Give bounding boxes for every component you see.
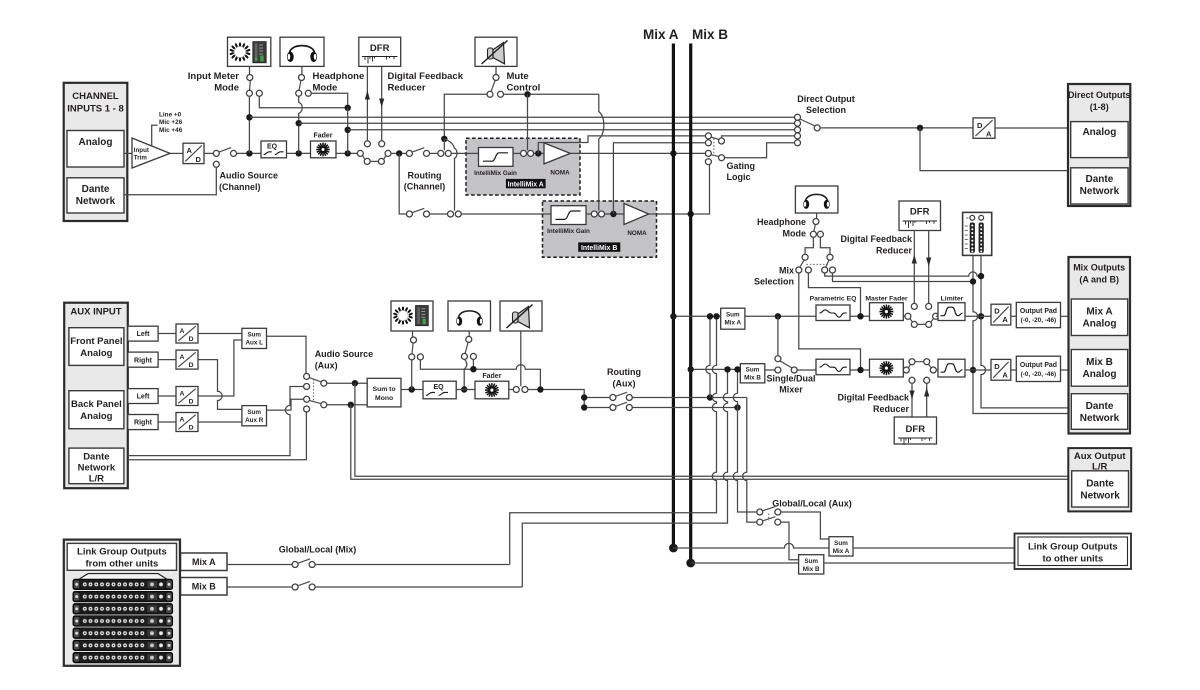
wire pair to NOMA B: [604, 213, 624, 215]
wire EQ to fader: [287, 152, 311, 154]
headphone mode icon mix: [795, 186, 838, 213]
wire gl-aux2 to link sum B: [781, 522, 799, 560]
node aux routing branch 1: [581, 394, 587, 400]
svg-text:Aux Output: Aux Output: [1074, 451, 1127, 462]
svg-text:Dante: Dante: [83, 452, 109, 463]
svg-text:IntelliMix Gain: IntelliMix Gain: [474, 170, 517, 177]
wire routing branch down to B path: [399, 153, 406, 214]
wire source L to sum to mono: [327, 382, 368, 384]
aux mute icon: [500, 301, 542, 331]
channel dante network box: [67, 178, 124, 213]
svg-text:(A and B): (A and B): [1079, 275, 1119, 285]
wire aux meter post branch: [420, 360, 540, 390]
output pad B box: [1016, 356, 1060, 381]
aux meter mode icon: [391, 301, 433, 331]
front panel analog box: [69, 328, 124, 366]
parametric EQ A box: [816, 305, 850, 321]
wire meter pre tap: [248, 96, 250, 153]
wire mute drop B (over box): [598, 200, 600, 211]
aux headphone selector: [461, 331, 476, 359]
wire mixsel2 to A post-EQ: [808, 273, 860, 316]
D/A converter mix B: [991, 359, 1011, 380]
global/local aux switch 2: [757, 517, 781, 525]
svg-text:A: A: [1002, 315, 1008, 324]
mute break switch in IntelliMix B: [591, 211, 604, 217]
mix A analog box: [1071, 299, 1127, 336]
svg-text:Line +0: Line +0: [159, 112, 182, 119]
routing aux switch 2: [610, 402, 632, 410]
label routing aux: [607, 367, 641, 389]
wire switch to EQ: [236, 152, 261, 154]
channel DFR insert switch: [357, 141, 391, 165]
node mute right split: [524, 91, 530, 97]
wire to mute pair B: [429, 213, 447, 215]
svg-text:Sum: Sum: [804, 558, 818, 565]
wire mixsel1 to B post-EQ: [799, 273, 861, 370]
svg-text:Digital Feedback: Digital Feedback: [388, 71, 464, 82]
wire mix B bus to sum mix B: [691, 368, 741, 370]
wire NOMA A output to mix A: [570, 152, 705, 154]
wire routing2 to global/local aux 1: [733, 369, 757, 512]
node aux post-fader tap: [537, 386, 543, 392]
svg-text:Analog: Analog: [1082, 127, 1116, 138]
front right box: [128, 352, 158, 367]
svg-text:A: A: [187, 146, 193, 155]
svg-text:Dante: Dante: [1086, 479, 1114, 490]
direct outputs outer box: [1068, 84, 1131, 206]
wire A/D3 to sum aux L: [198, 340, 242, 396]
node gate tap B: [610, 211, 616, 217]
svg-text:Direct Outputs: Direct Outputs: [1068, 90, 1131, 100]
aux meter selector: [409, 331, 424, 360]
rack units drawing: [80, 574, 167, 579]
wire D/A to output pad A: [1011, 315, 1017, 317]
wire aux R to dante out: [351, 405, 1069, 480]
svg-text:Front Panel: Front Panel: [70, 336, 122, 347]
label audio source aux: [315, 349, 374, 371]
link sum mix A box: [829, 537, 853, 556]
wire mix A bus to sum mix A: [673, 315, 720, 317]
wire mix A in: [227, 564, 292, 566]
IntelliMix gain A box: [479, 148, 514, 167]
svg-text:D: D: [189, 399, 194, 406]
gating gang link: [713, 139, 715, 155]
wire link sum B out: [824, 562, 1015, 564]
wire aux headphone post: [472, 359, 474, 369]
node aux routing branch 2: [581, 404, 587, 410]
svg-text:Mic +26: Mic +26: [159, 119, 183, 126]
gain bracket wire: [152, 125, 158, 145]
svg-text:Mix B: Mix B: [692, 27, 728, 42]
label headphone mode mix: [757, 217, 806, 239]
svg-text:Reducer: Reducer: [873, 404, 910, 414]
svg-text:Analog: Analog: [1083, 369, 1117, 380]
wire meter left to B output: [973, 255, 1071, 413]
wire aux dante L to switch with hop: [128, 387, 304, 456]
wire link-in A vertical: [510, 316, 717, 564]
svg-text:Link Group Outputs: Link Group Outputs: [77, 547, 167, 558]
IntelliMix A dashed block: [466, 138, 580, 195]
svg-text:Routing: Routing: [607, 367, 641, 377]
wire switch to PEQ B: [797, 369, 816, 371]
svg-text:Mix A: Mix A: [1086, 307, 1112, 318]
wire EQ to fader: [456, 389, 475, 391]
wire NOMA B output to mix B and gating: [649, 165, 710, 214]
wire mixsel4 to B output: [833, 273, 974, 282]
output pad A box: [1016, 302, 1060, 327]
wire pad B to mix outputs: [1061, 369, 1072, 371]
svg-text:Gating: Gating: [727, 161, 756, 171]
wire master fader to DFR insert: [903, 315, 905, 317]
wire limiter A to D/A A: [936, 315, 991, 317]
wire aux L to dante out: [355, 383, 1068, 476]
mix outputs outer box: [1069, 257, 1131, 434]
wire into IntelliMix B: [461, 213, 551, 215]
svg-text:Sum to: Sum to: [373, 386, 396, 393]
back right box: [128, 415, 158, 430]
svg-text:EQ: EQ: [267, 144, 278, 151]
node sumA line tap2: [713, 313, 719, 319]
svg-text:Input Meter: Input Meter: [188, 71, 239, 82]
svg-text:Mode: Mode: [313, 83, 338, 94]
svg-text:Network: Network: [1080, 413, 1120, 424]
svg-text:Left: Left: [137, 331, 151, 338]
IntelliMix B black label: [578, 242, 620, 251]
sum mix A box: [721, 308, 745, 329]
wire sum aux L to source switch: [267, 336, 307, 373]
wire DFR B send down: [911, 383, 913, 417]
wire mute drop A (over box): [527, 137, 529, 150]
label mute control: [507, 71, 541, 94]
svg-text:D: D: [189, 362, 194, 369]
svg-text:Global/Local (Mix): Global/Local (Mix): [279, 545, 357, 555]
svg-text:Mix A: Mix A: [725, 320, 742, 327]
mix dante network box: [1071, 394, 1127, 430]
bus line 1 pre tap: [249, 116, 794, 118]
wire source R to sum to mono: [327, 404, 368, 406]
audio source aux switches: [304, 373, 327, 412]
IntelliMix B dashed block: [543, 201, 657, 257]
svg-text:Analog: Analog: [80, 348, 112, 359]
node mix B channel junction: [688, 211, 694, 217]
NOMA B amplifier: [624, 204, 649, 237]
back left box: [128, 389, 158, 404]
node single/dual branch: [775, 313, 781, 319]
wire dante to source switch: [124, 167, 216, 195]
aux A/D 1: [176, 324, 198, 343]
svg-text:(Aux): (Aux): [315, 361, 338, 371]
svg-text:Mix B: Mix B: [192, 582, 217, 592]
rack unit 6: [73, 640, 173, 651]
link-in mix B box: [181, 578, 228, 596]
Mix B bus: [689, 44, 692, 564]
node aux post join: [470, 366, 476, 372]
IntelliMix A black label: [506, 179, 546, 188]
svg-text:IntelliMix B: IntelliMix B: [581, 245, 617, 252]
headphone mode selector: [296, 66, 312, 96]
wire routing2 to sum B vertical: [632, 407, 737, 409]
node mixsel1 tap B: [857, 367, 863, 373]
svg-text:Audio Source: Audio Source: [220, 171, 279, 181]
wire D/A to output pad B: [1011, 369, 1017, 371]
wire PEQ B to master fader B: [850, 369, 870, 371]
DFR mix B box: [894, 417, 936, 445]
svg-text:Input: Input: [134, 147, 149, 154]
svg-text:Network: Network: [1080, 491, 1120, 502]
svg-text:A: A: [180, 354, 185, 361]
wire into gain A (over box): [464, 152, 479, 154]
svg-text:(Channel): (Channel): [219, 182, 261, 192]
wire analog to input trim: [124, 152, 132, 154]
limiter A box: [938, 303, 965, 321]
svg-text:Master Fader: Master Fader: [865, 296, 908, 303]
svg-text:Selection: Selection: [754, 277, 794, 287]
wire D/A to analog out: [995, 127, 1071, 129]
wire mixsel3 to A output with hop: [825, 272, 981, 276]
label digital feedback reducer mix A: [840, 234, 913, 256]
svg-text:CHANNEL: CHANNEL: [72, 91, 119, 102]
svg-text:D: D: [189, 336, 194, 343]
wire gating2 out to selector: [724, 143, 794, 158]
svg-text:Mix B: Mix B: [744, 375, 761, 382]
node aux L tap: [352, 380, 358, 386]
direct dante box: [1071, 168, 1128, 204]
wire branch1 to switch: [587, 397, 610, 399]
svg-text:Trim: Trim: [134, 154, 148, 161]
master fader A box: [870, 303, 904, 321]
wire gain to mute pair: [513, 152, 521, 154]
single/dual switch: [775, 356, 797, 373]
aux headphone mode icon: [448, 301, 491, 331]
wire pad A to mix outputs: [1061, 315, 1072, 317]
svg-text:DFR: DFR: [910, 207, 930, 218]
routing aux switch 1: [610, 392, 632, 400]
svg-text:Global/Local (Aux): Global/Local (Aux): [772, 499, 852, 509]
svg-text:Mix: Mix: [779, 266, 794, 276]
node sumA line tap1: [707, 313, 713, 319]
global/local mix switch A: [292, 559, 315, 568]
svg-text:(Aux): (Aux): [613, 379, 636, 389]
label digital feedback reducer B: [837, 393, 910, 415]
global/local mix switch B: [292, 581, 315, 590]
headphone mix selector: [810, 213, 823, 237]
node direct split: [917, 125, 923, 131]
wire DFR return down: [381, 66, 383, 140]
label single/dual mixer: [766, 374, 815, 395]
global/local aux switch 1: [757, 507, 781, 515]
direct output selector switch: [795, 114, 821, 146]
mute control selector: [487, 66, 504, 97]
wire direct to dante out: [920, 128, 1071, 171]
svg-text:Link Group Outputs: Link Group Outputs: [1028, 542, 1118, 553]
wire insert to routing switch: [391, 152, 407, 154]
node A final tap: [978, 313, 984, 319]
routing channel switch A: [406, 148, 429, 157]
routing channel switch B: [406, 208, 429, 217]
wire sum mix B to switch: [765, 369, 775, 371]
wire pair to NOMA A: [534, 152, 545, 154]
svg-text:Single/Dual: Single/Dual: [766, 374, 815, 384]
svg-text:NOMA: NOMA: [550, 170, 570, 177]
aux EQ box: [423, 381, 456, 399]
svg-text:Headphone: Headphone: [313, 71, 365, 82]
wire mute drop into IntelliMix A: [527, 94, 529, 150]
aux A/D 3: [176, 387, 198, 406]
front left box: [128, 326, 158, 341]
rack unit 4: [73, 616, 173, 627]
node aux meter tap: [409, 386, 415, 392]
svg-text:Left: Left: [137, 394, 151, 401]
svg-text:Logic: Logic: [727, 172, 751, 182]
wire gl-aux1 to link sum A: [781, 512, 829, 539]
wire gating1 out to selector: [722, 136, 795, 138]
svg-text:Dante: Dante: [1086, 401, 1114, 412]
channel A/D converter: [183, 143, 204, 164]
svg-text:(-0, -20, -46): (-0, -20, -46): [1021, 371, 1057, 378]
mute break switch pre-IntelliMixB: [448, 211, 462, 217]
node mix B end: [686, 559, 695, 568]
wire sum aux R to source switch: [267, 399, 304, 410]
svg-text:Limiter: Limiter: [941, 296, 964, 303]
wire aux mute drop with hop: [520, 331, 522, 386]
wire mute left branch: [444, 94, 487, 139]
svg-text:Analog: Analog: [1083, 319, 1117, 330]
wire DFR B return up: [926, 383, 928, 417]
DFR mix A box: [899, 201, 941, 231]
aux A/D 2: [176, 350, 198, 369]
svg-text:Analog: Analog: [79, 137, 113, 148]
svg-text:Sum: Sum: [247, 409, 261, 416]
wire routing1 to global/local aux 2: [743, 398, 757, 523]
rack unit 1: [73, 579, 173, 590]
wire A/D2 to sum aux R with hop: [198, 360, 242, 410]
wire branch down to switch: [777, 316, 779, 356]
svg-text:Output Pad: Output Pad: [1020, 308, 1057, 315]
wire trim to A/D: [170, 152, 183, 154]
aux fader box: [475, 381, 509, 399]
aux mute break switch: [513, 387, 528, 393]
svg-text:Sum: Sum: [247, 332, 261, 339]
node meter right mixsel3: [978, 273, 984, 279]
node routing1 sumA join: [707, 394, 713, 400]
svg-text:Mix Outputs: Mix Outputs: [1073, 263, 1125, 273]
svg-text:Analog: Analog: [80, 411, 112, 422]
node sumB line tap2: [734, 366, 740, 372]
meter mode selector: [246, 66, 262, 96]
node meter/headphone post join: [345, 105, 351, 111]
bus line 3 post-fader tap: [348, 129, 795, 131]
wire mix A in riser: [315, 564, 510, 566]
node post-EQ tap: [296, 150, 302, 156]
wire routing1 to sum A vertical: [632, 397, 747, 399]
aux dante network box: [69, 448, 124, 484]
wire headphone post branch: [311, 93, 348, 108]
DFR channel box: [359, 37, 401, 66]
node sumB line tap1: [724, 366, 730, 372]
input trim amplifier: [132, 138, 170, 168]
node routing branch: [396, 150, 402, 156]
wire gate tap A to gating: [538, 136, 705, 154]
wire aux to routing: [528, 390, 584, 411]
wire to mute pair A: [429, 152, 438, 154]
svg-text:A: A: [180, 328, 185, 335]
DFR B insert switch: [903, 359, 936, 384]
wire mix B in riser: [315, 586, 522, 588]
svg-text:Mix A: Mix A: [643, 27, 679, 42]
DFR A insert switch: [905, 303, 939, 327]
mute break switch in IntelliMix A: [521, 150, 534, 156]
aux dante network out box: [1072, 471, 1129, 507]
svg-text:D: D: [977, 121, 983, 130]
svg-text:Mono: Mono: [375, 395, 393, 402]
channel EQ block: [261, 141, 287, 158]
wire DFR A return: [928, 231, 930, 304]
link-in mix A box: [181, 553, 228, 571]
svg-text:(1-8): (1-8): [1090, 102, 1109, 112]
svg-text:Mix A: Mix A: [192, 557, 216, 567]
svg-text:A: A: [1002, 370, 1008, 379]
node bus2 junction: [296, 120, 302, 126]
mix selection switches: [796, 254, 836, 273]
svg-text:Digital Feedback: Digital Feedback: [840, 234, 913, 244]
wire aux meter pre: [411, 360, 413, 390]
svg-text:Parametric EQ: Parametric EQ: [810, 296, 857, 303]
svg-text:Back Panel: Back Panel: [71, 399, 122, 410]
svg-text:A: A: [180, 417, 185, 424]
direct D/A converter: [973, 118, 995, 138]
label digital feedback reducer: [388, 71, 464, 94]
label input meter mode: [188, 71, 239, 94]
svg-text:from other units: from other units: [85, 559, 158, 570]
wire mute right branch: [503, 93, 598, 95]
svg-text:Aux R: Aux R: [245, 417, 264, 424]
svg-text:Fader: Fader: [313, 133, 332, 140]
svg-text:AUX INPUT: AUX INPUT: [70, 307, 121, 318]
svg-text:Mode: Mode: [214, 83, 239, 94]
wire aux dante R to switch: [128, 412, 307, 460]
direct analog box: [1071, 122, 1128, 158]
label audio source channel: [219, 171, 278, 193]
mix B analog box: [1071, 350, 1127, 387]
wire meter right to A output: [981, 255, 1071, 408]
node B final tap: [970, 367, 976, 373]
svg-text:DFR: DFR: [370, 43, 390, 54]
svg-text:IntelliMix A: IntelliMix A: [508, 181, 544, 188]
svg-text:D: D: [196, 155, 202, 164]
wire gate tap B up to gating: [613, 143, 705, 214]
master fader B box: [870, 359, 904, 377]
rack unit 2: [73, 591, 173, 602]
link sum mix B box: [799, 555, 824, 574]
node post-fader tap: [345, 150, 351, 156]
node aux headphone pre tap: [461, 386, 467, 392]
node mix A end: [669, 544, 678, 553]
aux A/D 4: [176, 413, 198, 432]
wire sum mix A to parametric EQ: [745, 315, 816, 317]
svg-text:Sum: Sum: [746, 367, 760, 374]
wire back left to A/D: [158, 395, 176, 397]
wire sum to mono out: [401, 389, 423, 391]
audio source (channel) switch: [213, 148, 236, 168]
svg-text:IntelliMix Gain: IntelliMix Gain: [547, 228, 590, 235]
svg-text:NOMA: NOMA: [627, 230, 647, 237]
wire A/D1 to sum aux L: [198, 333, 242, 335]
wire PEQ A to master fader: [850, 315, 870, 317]
label routing channel: [404, 171, 446, 192]
svg-text:Dante: Dante: [1086, 174, 1114, 185]
wire front right to A/D: [158, 359, 176, 361]
mix meters icon: [963, 212, 992, 255]
